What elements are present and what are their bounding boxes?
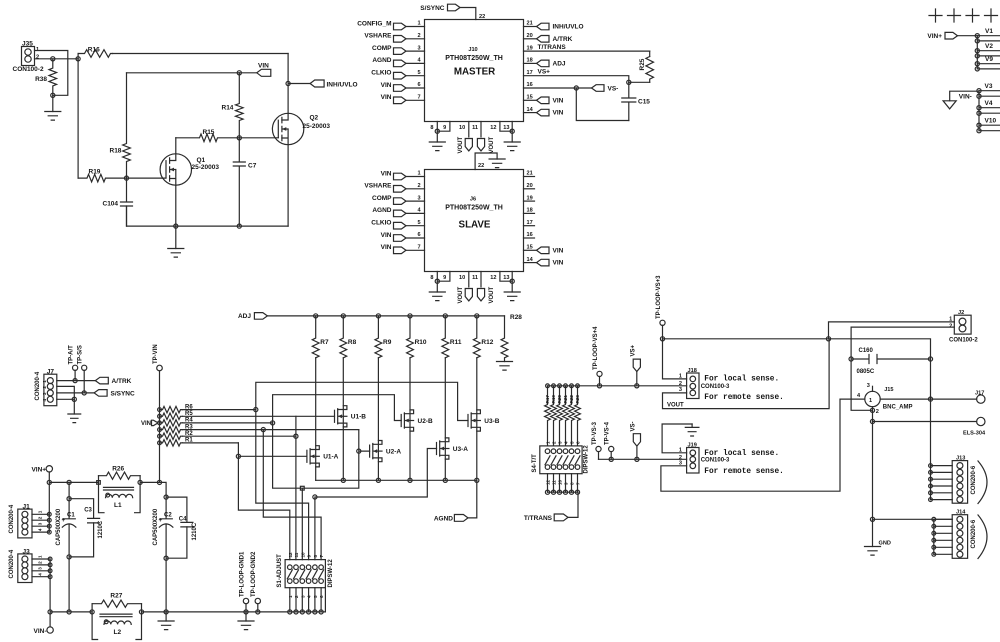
- svg-text:2: 2: [36, 55, 39, 61]
- net flag VIN (SLAVE pin 15): [524, 245, 564, 255]
- ground: [68, 399, 81, 422]
- junction: [164, 610, 168, 614]
- svg-text:R12: R12: [481, 339, 493, 346]
- wire R5 net: [183, 415, 296, 417]
- test point TP-LOOP-GND2: [251, 551, 260, 612]
- ground: [45, 95, 61, 120]
- junction: [138, 480, 142, 484]
- svg-text:VIN: VIN: [141, 421, 151, 427]
- junction: [849, 357, 853, 361]
- junction: [237, 224, 241, 228]
- svg-text:VIN: VIN: [381, 94, 392, 101]
- svg-text:1: 1: [418, 171, 421, 177]
- wire J19 pin2: [599, 458, 687, 460]
- resistor R2: [160, 431, 194, 439]
- svg-text:J17: J17: [975, 391, 984, 397]
- junction: [870, 408, 874, 412]
- svg-text:VS+: VS+: [630, 344, 636, 356]
- resistor R12: [473, 316, 493, 358]
- ground: [504, 131, 520, 150]
- svg-text:GND: GND: [879, 541, 891, 547]
- net flag VIN (SLAVE pin 1): [381, 170, 425, 180]
- wire Q1 gate: [127, 177, 167, 179]
- resistor R18: [110, 73, 131, 178]
- svg-text:R19: R19: [551, 395, 556, 404]
- svg-text:10: 10: [300, 552, 305, 558]
- svg-text:VIN: VIN: [553, 247, 564, 254]
- svg-text:TP-VS-3: TP-VS-3: [592, 421, 598, 445]
- connector J18 CON100-3: [687, 373, 699, 399]
- junction: [376, 478, 380, 482]
- wire C1 column to ground bus: [68, 557, 70, 612]
- svg-text:13: 13: [503, 275, 509, 281]
- svg-text:R17: R17: [545, 395, 550, 404]
- junction: [376, 314, 380, 318]
- resistor R7: [312, 316, 329, 358]
- svg-text:3: 3: [38, 522, 43, 525]
- resistor R26 / inductor L1: [99, 466, 141, 513]
- ground: [429, 281, 445, 300]
- wire VS- loop: [576, 88, 629, 121]
- svg-text:1: 1: [42, 380, 47, 383]
- svg-text:V9: V9: [985, 56, 993, 63]
- svg-text:1: 1: [38, 510, 43, 513]
- svg-text:S1-ADJUST: S1-ADJUST: [277, 554, 283, 588]
- net flag VIN (SLAVE pin 6): [381, 232, 425, 242]
- wire V3/V4/V10 bus: [978, 91, 980, 131]
- connector J17: [975, 391, 985, 404]
- transistor U2-A: [370, 441, 402, 462]
- svg-text:For local sense.: For local sense.: [704, 376, 779, 384]
- ground: [238, 612, 254, 630]
- junction: [67, 555, 71, 559]
- net flag VOUT (MASTER pin 11): [472, 122, 495, 154]
- svg-text:CLKIO: CLKIO: [371, 70, 391, 77]
- net flag VIN (ladder): [141, 420, 158, 427]
- svg-text:A/TRK: A/TRK: [553, 36, 573, 43]
- svg-text:2: 2: [38, 561, 43, 564]
- svg-text:2: 2: [418, 33, 421, 39]
- svg-text:8: 8: [430, 125, 433, 131]
- net flag COMP (MASTER pin 3): [372, 45, 425, 54]
- wire VS- (MASTER pin 16): [524, 82, 592, 88]
- net flag AGND (SLAVE pin 4): [372, 207, 424, 217]
- svg-text:T/TRANS: T/TRANS: [538, 44, 567, 51]
- svg-text:PTH08T250W_TH: PTH08T250W_TH: [445, 205, 503, 212]
- junction: [313, 495, 317, 499]
- bracket J14: [978, 515, 987, 559]
- test point TP-LOOP-VS+4: [593, 326, 602, 386]
- bracket J13: [978, 461, 987, 504]
- connector V3: [977, 83, 1000, 98]
- wire to ELS-304: [873, 421, 977, 423]
- junction: [254, 408, 258, 412]
- svg-text:17: 17: [527, 70, 533, 76]
- junction: [139, 610, 143, 614]
- svg-text:CAP500X200: CAP500X200: [153, 508, 159, 545]
- junction: [870, 517, 874, 521]
- svg-text:16: 16: [527, 232, 533, 238]
- svg-text:L2: L2: [114, 629, 122, 636]
- junction: [237, 71, 241, 75]
- wire U1-B gate feed / S1 col2: [296, 416, 335, 559]
- svg-text:R18: R18: [110, 148, 122, 155]
- svg-text:19: 19: [527, 195, 533, 201]
- junction: [341, 478, 345, 482]
- svg-text:SLAVE: SLAVE: [459, 220, 491, 231]
- junction: [510, 129, 514, 133]
- junction: [510, 279, 514, 283]
- svg-text:4: 4: [564, 441, 569, 444]
- svg-text:CON100-3: CON100-3: [701, 458, 730, 464]
- svg-text:14: 14: [527, 107, 534, 113]
- svg-text:CON200-4: CON200-4: [35, 371, 41, 400]
- junction: [307, 610, 311, 614]
- svg-text:U3-A: U3-A: [453, 446, 468, 453]
- junction: [124, 176, 128, 180]
- net flag INH/UVLO: [288, 80, 357, 89]
- wire J2 pin1: [829, 322, 955, 339]
- wire VIN+ rail: [49, 472, 98, 532]
- test point TP-LOOP-VS+3: [656, 275, 665, 339]
- net flag VOUT (MASTER pin 10): [458, 122, 472, 154]
- resistor R11: [442, 316, 462, 358]
- wire S1 col6 feed: [263, 430, 321, 560]
- svg-text:18: 18: [527, 58, 533, 64]
- junction: [47, 480, 51, 484]
- svg-text:For remote sense.: For remote sense.: [704, 468, 784, 476]
- svg-text:Q2: Q2: [310, 115, 319, 122]
- net flag VIN (MASTER pin 7): [381, 94, 425, 104]
- net flag S/SYNC (MASTER pin 22): [420, 4, 485, 20]
- svg-text:C4: C4: [179, 517, 187, 523]
- svg-text:15: 15: [527, 95, 533, 101]
- svg-text:21: 21: [527, 21, 533, 27]
- net flag VSHARE (SLAVE pin 2): [364, 183, 424, 193]
- net flag COMP (SLAVE pin 3): [372, 195, 425, 205]
- svg-text:1: 1: [869, 398, 872, 404]
- wire Q2 drain: [287, 54, 289, 114]
- svg-text:U1-A: U1-A: [323, 454, 338, 461]
- junction: [271, 421, 275, 425]
- svg-text:10: 10: [459, 275, 465, 281]
- net flag VIN (MASTER pin 14): [524, 107, 564, 117]
- svg-text:TP-VS-4: TP-VS-4: [605, 421, 611, 445]
- svg-text:VOUT: VOUT: [489, 136, 495, 153]
- test point TP-VS-3: [592, 421, 601, 459]
- svg-text:VOUT: VOUT: [667, 403, 684, 409]
- svg-text:R8: R8: [348, 339, 357, 346]
- svg-text:S/SYNC: S/SYNC: [420, 5, 445, 12]
- svg-text:Q1: Q1: [197, 157, 206, 164]
- wire S4 to T/TRANS: [545, 474, 579, 518]
- net flag VIN+: [927, 32, 977, 40]
- wire VS+ (MASTER pin 17): [524, 69, 629, 83]
- resistor R17: [545, 386, 551, 446]
- net flag VS-: [592, 85, 619, 93]
- svg-text:1210C: 1210C: [98, 520, 104, 538]
- wire U2-B gate feed: [273, 395, 402, 422]
- wire J35.2: [35, 58, 79, 60]
- svg-text:9: 9: [307, 555, 312, 558]
- wire J2 pin2: [851, 327, 954, 410]
- junction: [236, 454, 240, 458]
- wire U2-A gate feed / S1 col3: [273, 423, 370, 560]
- svg-text:V10: V10: [985, 118, 997, 125]
- wire MASTER pins 12,13 to ground: [490, 122, 512, 132]
- ground: [685, 424, 699, 436]
- svg-text:VIN+: VIN+: [927, 33, 942, 40]
- svg-text:9: 9: [443, 275, 446, 281]
- wire S1 to ground bus: [290, 588, 321, 612]
- wire VOUT bus: [663, 339, 931, 399]
- resistor R27 / inductor L2: [92, 593, 141, 640]
- junction: [51, 57, 55, 61]
- transistor U1-A: [307, 446, 339, 467]
- wire Q2 gate: [239, 137, 278, 139]
- junction: [76, 57, 80, 61]
- net flag VSHARE (MASTER pin 2): [364, 33, 424, 43]
- ground: [429, 131, 445, 150]
- svg-text:C160: C160: [859, 348, 874, 354]
- wire J15 pin1: [880, 398, 976, 400]
- connector V4: [977, 100, 1000, 115]
- wire U3-B gate feed: [256, 382, 468, 420]
- svg-text:TP-LOOP-GND1: TP-LOOP-GND1: [239, 551, 245, 597]
- svg-text:J7: J7: [47, 369, 55, 376]
- wire mosfet column 2: [342, 358, 344, 481]
- svg-text:11: 11: [472, 275, 478, 281]
- svg-text:AGND: AGND: [372, 57, 391, 64]
- junction: [313, 610, 317, 614]
- svg-text:VIN: VIN: [381, 244, 392, 251]
- svg-text:3: 3: [867, 383, 870, 389]
- net flag CLKIO (MASTER pin 5): [371, 70, 424, 80]
- junction: [408, 478, 412, 482]
- svg-text:U2-A: U2-A: [386, 449, 401, 456]
- svg-text:R14: R14: [222, 105, 234, 112]
- svg-text:R19: R19: [89, 169, 101, 176]
- svg-text:MASTER: MASTER: [454, 67, 495, 78]
- svg-text:5: 5: [418, 220, 421, 226]
- svg-text:V3: V3: [985, 83, 993, 90]
- transistor U1-B: [335, 406, 367, 427]
- net flag VIN (MASTER pin 6): [381, 82, 425, 92]
- svg-text:CON200-4: CON200-4: [9, 549, 15, 578]
- svg-text:U1-B: U1-B: [351, 414, 366, 421]
- svg-text:ELS-304: ELS-304: [963, 431, 986, 437]
- svg-text:CONFIG_M: CONFIG_M: [357, 20, 391, 27]
- svg-text:J18: J18: [688, 368, 697, 374]
- test point TP-A/T: [69, 345, 78, 381]
- transistor U3-B: [468, 410, 500, 431]
- wire J19 pin1 to ground: [662, 424, 692, 453]
- resistor R16: [78, 46, 112, 59]
- wire Q1 drain: [175, 138, 177, 154]
- net flag CONFIG_M (MASTER pin 1): [357, 20, 424, 30]
- svg-text:22: 22: [478, 163, 484, 169]
- svg-text:2: 2: [418, 183, 421, 189]
- svg-text:VS+: VS+: [538, 69, 551, 76]
- resistor R23: [575, 386, 581, 446]
- svg-text:4: 4: [38, 528, 43, 531]
- svg-text:0805C: 0805C: [857, 369, 875, 375]
- svg-text:R38: R38: [35, 76, 47, 83]
- net flag CLKIO (SLAVE pin 5): [371, 220, 424, 230]
- svg-text:17: 17: [527, 220, 533, 226]
- resistor R20: [557, 386, 563, 446]
- ground: [489, 159, 505, 168]
- svg-text:V4: V4: [985, 100, 993, 107]
- wire J15 pin2: [872, 407, 874, 422]
- svg-text:4: 4: [42, 399, 47, 402]
- svg-text:3: 3: [679, 387, 682, 393]
- junction: [475, 478, 479, 482]
- wire J3 pins: [32, 555, 52, 612]
- svg-text:R26: R26: [112, 466, 124, 473]
- junction: [164, 556, 168, 560]
- svg-text:AGND: AGND: [434, 516, 453, 523]
- svg-text:C1: C1: [67, 513, 75, 519]
- stub SLAVE pin 18: [524, 208, 535, 214]
- test point TP-VS-4: [605, 421, 614, 459]
- svg-text:7: 7: [319, 555, 324, 558]
- net flag S/SYNC: [57, 390, 135, 398]
- wire mosfet column 6: [476, 358, 478, 481]
- junction: [870, 419, 874, 423]
- wire mosfet column 1: [315, 358, 317, 481]
- wire SLAVE pins 8,9 to ground: [430, 272, 450, 282]
- junction: [51, 93, 55, 97]
- svg-text:ADJ: ADJ: [238, 313, 251, 320]
- IC J10 MASTER PTH08T250W_TH: [425, 20, 524, 122]
- wire C2 column to ground bus: [165, 558, 167, 612]
- svg-text:CON100-3: CON100-3: [701, 384, 730, 390]
- connector J1 CON200-4: [18, 509, 32, 538]
- svg-text:C104: C104: [103, 201, 119, 208]
- svg-text:PTH08T250W_TH: PTH08T250W_TH: [445, 55, 503, 62]
- svg-text:J19: J19: [688, 442, 697, 448]
- wire Q2 source: [287, 145, 289, 226]
- svg-text:1: 1: [418, 21, 421, 27]
- wire J7 pins 2,4 to ground: [57, 386, 75, 399]
- svg-text:J2: J2: [958, 310, 964, 316]
- svg-text:+: +: [159, 518, 163, 524]
- connector J7 CON200-4: [44, 374, 57, 406]
- resistor R9: [375, 316, 392, 358]
- resistor R19: [78, 59, 126, 182]
- svg-text:R9: R9: [383, 339, 392, 346]
- svg-text:J1: J1: [23, 504, 31, 511]
- junction: [90, 610, 94, 614]
- switch S4-T/T DIPSW-12: [532, 441, 590, 485]
- junction: [443, 314, 447, 318]
- svg-text:V1: V1: [985, 28, 993, 35]
- junction: [244, 610, 248, 614]
- junction: [408, 314, 412, 318]
- ground: [497, 362, 513, 371]
- wire VS+ sense bus: [548, 385, 687, 387]
- wire J35.1 loop: [35, 51, 68, 96]
- svg-text:C7: C7: [248, 163, 257, 170]
- capacitor C1: [56, 482, 76, 557]
- junction: [237, 136, 241, 140]
- connector V1: [975, 28, 1000, 43]
- svg-text:R7: R7: [320, 339, 329, 346]
- wire R1 net: [183, 442, 239, 444]
- svg-text:21: 21: [527, 171, 533, 177]
- svg-text:S4-T/T: S4-T/T: [532, 454, 538, 473]
- connector ELS-304: [963, 417, 986, 436]
- wire ground bus: [50, 588, 325, 612]
- capacitor C15: [622, 82, 651, 120]
- power symbol VIN-: [943, 91, 979, 109]
- junction: [314, 314, 318, 318]
- net flag VIN: [239, 63, 270, 77]
- wire SLAVE pins 12,13 to ground: [490, 272, 512, 282]
- junction: [635, 457, 639, 461]
- svg-text:J3: J3: [23, 548, 31, 555]
- wire R2 net: [183, 435, 296, 437]
- svg-text:1: 1: [546, 441, 551, 444]
- svg-text:C3: C3: [84, 508, 92, 514]
- junction: [627, 80, 631, 84]
- wire R3 net: [183, 429, 359, 431]
- svg-text:VIN: VIN: [553, 110, 564, 117]
- connector V10: [977, 118, 1000, 133]
- svg-text:19: 19: [527, 45, 533, 51]
- net flag AGND: [434, 480, 477, 522]
- svg-text:7: 7: [418, 245, 421, 251]
- svg-text:18: 18: [527, 208, 533, 214]
- junction: [294, 434, 298, 438]
- connector J13 CON200-6: [952, 461, 967, 504]
- transistor U3-A: [437, 438, 469, 459]
- net flag VS-: [630, 421, 640, 459]
- svg-text:CON100-2: CON100-2: [13, 66, 44, 73]
- svg-text:J10: J10: [468, 47, 477, 53]
- svg-text:R27: R27: [110, 593, 122, 600]
- junction: [82, 391, 86, 395]
- stub SLAVE pin 20: [524, 183, 535, 189]
- capacitor C104: [103, 178, 133, 226]
- svg-text:VS-: VS-: [630, 421, 636, 431]
- resistor R22: [569, 386, 575, 446]
- svg-text:+: +: [62, 518, 66, 524]
- svg-text:CON200-6: CON200-6: [971, 519, 977, 548]
- svg-text:J6: J6: [470, 197, 476, 203]
- IC J6 SLAVE PTH08T250W_TH: [425, 170, 524, 272]
- connector J14 CON200-6: [952, 515, 967, 559]
- svg-text:1: 1: [679, 448, 682, 454]
- svg-text:CLKIO: CLKIO: [371, 220, 391, 227]
- resistor R3: [160, 424, 194, 432]
- stub SLAVE pin 17: [524, 220, 535, 226]
- svg-text:5: 5: [570, 441, 575, 444]
- svg-text:J35: J35: [22, 41, 33, 48]
- resistor R14: [222, 73, 244, 138]
- wire mosfet column 3: [377, 358, 379, 481]
- junction: [928, 397, 932, 401]
- svg-text:DIPSW-12: DIPSW-12: [584, 445, 590, 474]
- junction: [300, 610, 304, 614]
- svg-text:9: 9: [443, 125, 446, 131]
- svg-text:T/TRANS: T/TRANS: [524, 515, 553, 522]
- junction: [635, 384, 639, 388]
- transistor U2-B: [401, 410, 433, 431]
- capacitor C7: [233, 138, 256, 226]
- svg-text:VIN-: VIN-: [34, 628, 47, 635]
